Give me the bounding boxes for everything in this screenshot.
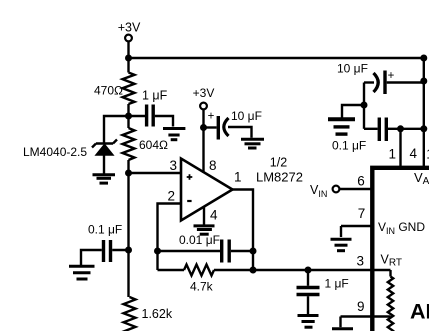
ADC pin 6 VIN input terminal bbox=[310, 174, 372, 200]
wire op-amp output bbox=[231, 190, 253, 271]
junction rail right end bbox=[420, 55, 427, 62]
label LM4040-2.5 bbox=[23, 145, 87, 159]
junction pin1 top bbox=[397, 125, 404, 132]
wire VRT to ADC bbox=[253, 269, 391, 271]
svg-text:VIN GND: VIN GND bbox=[378, 220, 425, 236]
wire pin1 to pin4 bbox=[401, 128, 424, 130]
ADC IC body outline bbox=[372, 168, 429, 331]
svg-text:1.62k: 1.62k bbox=[142, 307, 173, 321]
junction output node bbox=[250, 267, 257, 274]
svg-text:604Ω: 604Ω bbox=[139, 138, 168, 152]
node junction pin3 bbox=[125, 170, 132, 177]
svg-text:7: 7 bbox=[358, 206, 366, 221]
svg-text:+3V: +3V bbox=[193, 86, 215, 100]
ground top right bbox=[328, 119, 355, 134]
wire to ground top right bbox=[342, 105, 364, 118]
pin label 1 (ADC) bbox=[388, 147, 396, 162]
wire pin 2 feedback bbox=[158, 204, 182, 271]
wire left column down bbox=[127, 173, 129, 250]
zener diode LM4040-2.5 bbox=[92, 140, 117, 175]
wire pin 3 bbox=[129, 172, 182, 174]
junction at pin 8 branch bbox=[200, 124, 207, 131]
label VRT bbox=[381, 253, 403, 269]
wire ADC pin 1 line bbox=[399, 129, 401, 168]
node junction at 0.1uF bbox=[125, 247, 132, 254]
label 1/2 LM8272 bbox=[256, 156, 303, 185]
+3V supply terminal left bbox=[118, 21, 141, 59]
capacitor 0.01uF feedback bbox=[158, 233, 254, 263]
pin label 4 bbox=[210, 208, 218, 223]
capacitor 1uF (bottom) bbox=[297, 270, 349, 315]
pin label 1 bbox=[234, 170, 242, 185]
wire top +3V rail bbox=[129, 57, 424, 59]
pin label 3 (ADC VRT) bbox=[357, 254, 365, 269]
label VIN GND bbox=[378, 220, 425, 236]
capacitor 0.1uF (left) bbox=[81, 223, 129, 266]
wire pin 4 to ground bbox=[203, 206, 205, 225]
svg-text:1 μF: 1 μF bbox=[325, 277, 349, 291]
svg-text:+: + bbox=[388, 70, 395, 82]
pin label 8 bbox=[209, 158, 217, 173]
svg-text:470Ω: 470Ω bbox=[94, 84, 123, 98]
ground pin 7 bbox=[331, 239, 352, 250]
capacitor 10uF (mid, polarized) bbox=[204, 109, 262, 140]
pin label 4 (ADC) bbox=[410, 146, 418, 161]
capacitor 1uF (top left) bbox=[129, 89, 174, 127]
junction feedback right bbox=[250, 248, 257, 255]
resistor 604 ohm bbox=[123, 116, 169, 173]
junction at rail left bbox=[125, 55, 132, 62]
svg-text:1/2: 1/2 bbox=[270, 156, 287, 170]
svg-text:AD: AD bbox=[410, 300, 429, 324]
junction 0.1uF right bbox=[420, 125, 427, 132]
ground for LM4040 bbox=[93, 175, 116, 183]
resistor 1.62k bbox=[124, 297, 173, 331]
svg-text:10 μF: 10 μF bbox=[337, 62, 368, 76]
svg-text:VRT: VRT bbox=[381, 253, 403, 269]
ground for 10uF mid bbox=[241, 139, 264, 148]
pin label 3 bbox=[169, 158, 177, 173]
svg-text:1 μF: 1 μF bbox=[142, 89, 168, 103]
ADC pin 7 VIN GND bbox=[341, 206, 372, 237]
node junction below 470 ohm bbox=[125, 113, 132, 120]
svg-text:9: 9 bbox=[357, 299, 365, 314]
resistor 4.7k feedback bbox=[158, 265, 254, 294]
op-amp U1 LM8272 triangle bbox=[181, 159, 233, 221]
+3V supply terminal mid bbox=[193, 86, 215, 128]
wire down to 1.62k bbox=[127, 250, 129, 297]
svg-text:1: 1 bbox=[388, 147, 396, 162]
junction left leg bbox=[361, 102, 368, 109]
svg-text:6: 6 bbox=[357, 174, 365, 189]
ground for 1uF bottom bbox=[298, 316, 319, 328]
wire to LM4040 bbox=[104, 116, 129, 144]
svg-text:4: 4 bbox=[410, 146, 418, 161]
ADC pin 9 bbox=[341, 299, 391, 327]
svg-text:1: 1 bbox=[234, 170, 242, 185]
ground for 1uF top left bbox=[163, 129, 185, 140]
svg-text:VA: VA bbox=[414, 170, 429, 187]
wire ADC pin 4 line bbox=[423, 58, 425, 168]
capacitor 0.1uF (right) bbox=[332, 118, 401, 153]
pin label 2 bbox=[167, 189, 175, 204]
svg-text:2: 2 bbox=[167, 189, 175, 204]
junction 10uF right bbox=[420, 78, 427, 85]
junction at 1uF bottom bbox=[305, 267, 312, 274]
label AD (ADC part number, cut off) bbox=[410, 300, 429, 324]
wire 10uF left leg down bbox=[363, 83, 365, 129]
svg-text:+: + bbox=[208, 111, 215, 123]
svg-text:8: 8 bbox=[209, 158, 217, 173]
ground for op-amp pin 4 bbox=[194, 226, 215, 234]
wire pin 8 bbox=[202, 128, 204, 174]
svg-text:4: 4 bbox=[210, 208, 218, 223]
svg-text:10 μF: 10 μF bbox=[231, 109, 262, 123]
pin label partial at right edge bbox=[426, 147, 429, 162]
svg-text:3: 3 bbox=[357, 254, 365, 269]
junction feedback left bbox=[154, 248, 161, 255]
svg-text:+3V: +3V bbox=[118, 21, 141, 35]
svg-text:LM4040-2.5: LM4040-2.5 bbox=[23, 145, 87, 159]
svg-text:0.1 μF: 0.1 μF bbox=[88, 223, 122, 237]
svg-text:0.01 μF: 0.01 μF bbox=[179, 233, 220, 247]
svg-text:4.7k: 4.7k bbox=[190, 280, 214, 294]
resistor 470 ohm bbox=[94, 58, 135, 116]
svg-text:LM8272: LM8272 bbox=[256, 170, 303, 185]
ground for 0.1uF left bbox=[69, 266, 95, 279]
label VA bbox=[414, 170, 429, 187]
svg-text:VIN: VIN bbox=[310, 183, 327, 199]
svg-text:3: 3 bbox=[169, 158, 177, 173]
internal reference ladder resistor bbox=[388, 270, 393, 331]
capacitor 10uF (top right, polarized) bbox=[337, 62, 424, 95]
svg-text:0.1 μF: 0.1 μF bbox=[332, 139, 366, 153]
ground pin 9 (cut off) bbox=[332, 327, 353, 330]
